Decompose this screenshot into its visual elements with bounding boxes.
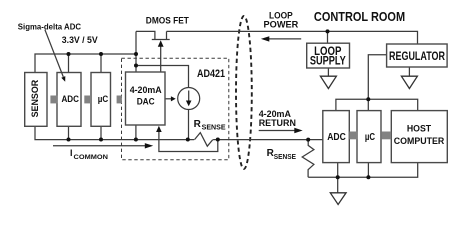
svg-text:RETURN: RETURN bbox=[259, 117, 296, 128]
svg-text:DAC: DAC bbox=[137, 97, 155, 108]
svg-text:COMPUTER: COMPUTER bbox=[394, 136, 445, 147]
svg-text:ADC: ADC bbox=[61, 94, 79, 105]
svg-text:AD421: AD421 bbox=[197, 68, 225, 80]
svg-text:POWER: POWER bbox=[264, 19, 299, 30]
svg-text:ADC: ADC bbox=[327, 132, 346, 143]
svg-text:µC: µC bbox=[98, 94, 109, 105]
svg-text:µC: µC bbox=[365, 132, 375, 143]
svg-text:HOST: HOST bbox=[407, 123, 431, 134]
svg-text:3.3V / 5V: 3.3V / 5V bbox=[62, 35, 99, 45]
svg-text:DMOS FET: DMOS FET bbox=[146, 16, 189, 26]
svg-text:SENSE: SENSE bbox=[202, 125, 226, 132]
svg-text:CONTROL ROOM: CONTROL ROOM bbox=[314, 10, 405, 24]
svg-text:I: I bbox=[70, 148, 73, 158]
svg-text:4-20mA: 4-20mA bbox=[130, 85, 162, 96]
svg-text:SENSOR: SENSOR bbox=[30, 80, 41, 118]
svg-text:REGULATOR: REGULATOR bbox=[389, 49, 445, 63]
svg-text:R: R bbox=[194, 119, 202, 130]
svg-text:SENSE: SENSE bbox=[274, 154, 297, 161]
svg-text:Sigma-delta ADC: Sigma-delta ADC bbox=[18, 21, 81, 31]
svg-text:COMMON: COMMON bbox=[74, 154, 109, 161]
svg-text:SUPPLY: SUPPLY bbox=[310, 55, 346, 67]
